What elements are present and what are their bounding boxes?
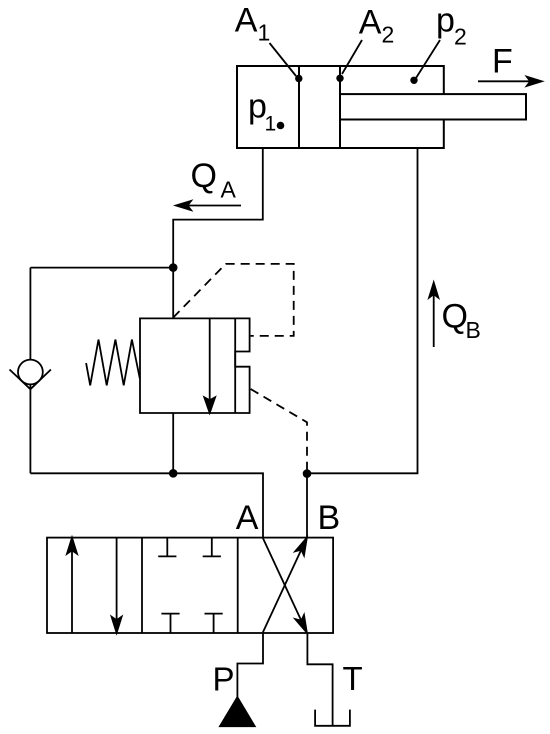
directional valve body xyxy=(47,538,333,633)
label A1 xyxy=(235,2,270,46)
svg-text:B: B xyxy=(318,499,341,537)
wire cylinder left port to valve xyxy=(173,148,263,318)
flow QA arrow xyxy=(176,201,241,210)
node p1 dot xyxy=(277,122,285,130)
leader line A2 xyxy=(342,40,362,74)
node A1 dot xyxy=(295,75,302,82)
cylinder piston xyxy=(298,66,300,148)
compensator spring xyxy=(86,340,140,386)
junction dot lower left xyxy=(169,469,178,478)
force F arrow xyxy=(478,77,542,86)
svg-text:F: F xyxy=(492,43,513,81)
leader line A1 xyxy=(270,43,297,76)
wire P line xyxy=(237,633,263,697)
pilot line dashed upper xyxy=(173,264,294,336)
valve right position crossed arrows xyxy=(263,538,307,633)
junction dot lower B xyxy=(303,469,312,478)
valve centre position closed ports xyxy=(158,538,223,633)
svg-text:A: A xyxy=(359,4,382,42)
compensator valve body xyxy=(140,318,250,413)
svg-text:P: P xyxy=(213,661,235,698)
svg-text:1: 1 xyxy=(258,20,271,46)
leader line p2 xyxy=(416,40,440,78)
cylinder rod xyxy=(340,94,526,119)
label p1 xyxy=(248,88,276,136)
compensator valve arrow xyxy=(204,318,215,412)
node p2 dot xyxy=(410,77,417,84)
svg-text:B: B xyxy=(466,317,481,343)
svg-text:A: A xyxy=(235,2,258,40)
check valve xyxy=(10,360,51,390)
svg-text:Q: Q xyxy=(191,157,217,195)
svg-text:A: A xyxy=(221,177,237,203)
flow QB arrow xyxy=(429,283,438,347)
wire cylinder right port QB line xyxy=(307,148,418,473)
tank T xyxy=(315,710,350,726)
wire top left branch horizontal xyxy=(30,267,173,269)
svg-text:2: 2 xyxy=(382,22,395,48)
wire T line xyxy=(307,633,332,726)
wire B port line xyxy=(306,474,308,538)
label QA xyxy=(191,157,237,203)
valve left position up arrow xyxy=(67,538,77,633)
valve left position down arrow xyxy=(112,538,122,633)
pump pressure source P xyxy=(220,697,255,726)
svg-text:Q: Q xyxy=(442,298,468,336)
wire bottom left horizontal to A port xyxy=(30,473,263,537)
svg-text:T: T xyxy=(343,660,363,697)
junction dot upper xyxy=(169,263,178,272)
wire check valve branch vertical xyxy=(29,268,31,474)
svg-text:p: p xyxy=(436,2,455,40)
label QB xyxy=(442,298,481,344)
svg-text:2: 2 xyxy=(454,24,467,50)
wire compensator outlet xyxy=(172,413,174,473)
svg-text:A: A xyxy=(236,499,259,537)
cylinder body xyxy=(237,66,444,148)
node A2 dot xyxy=(336,75,343,82)
label p2 xyxy=(436,2,467,50)
pilot line dashed lower xyxy=(251,389,307,470)
svg-text:1: 1 xyxy=(265,113,277,136)
label A2 xyxy=(359,4,394,48)
